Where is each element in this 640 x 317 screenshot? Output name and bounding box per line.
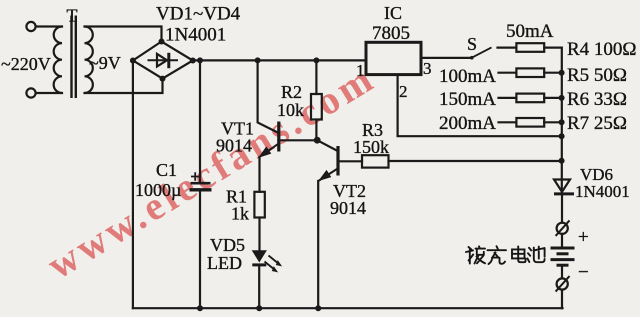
resistor R4 [516,43,544,52]
svg-text:10k: 10k [277,100,304,120]
wire: primary bottom lead [36,92,62,94]
svg-text:200mA: 200mA [439,113,496,134]
svg-text:1N4001: 1N4001 [165,25,226,46]
wire: R3 right to battery bus [389,160,562,162]
wire: R2 top branch [315,60,317,94]
switch S [470,47,492,59]
svg-text:50mA: 50mA [506,21,554,42]
node: C1 tap on +V rail [197,57,203,63]
node: bus row4 [559,119,565,125]
node A: R2 / VT1 base / VT2 collector [314,137,321,144]
svg-text:9014: 9014 [330,198,366,218]
wire: R5 to bus [544,72,561,74]
svg-text:150k: 150k [353,137,389,157]
transformer T [26,16,92,99]
core [72,16,76,99]
svg-text:1k: 1k [231,204,249,224]
wire: VT1 collector branch [258,60,279,132]
wire: IC pin3 to switch [421,57,471,59]
bridge inner diode [148,59,179,61]
wire: VT1 emitter to R1 [258,158,260,192]
wire: row2 lead to R5 [499,72,517,74]
svg-text:100mA: 100mA [439,66,496,87]
node: bus row3 [559,95,565,101]
node: bus row2 [559,70,565,76]
svg-text:T: T [67,6,78,26]
svg-text:R5 50Ω: R5 50Ω [567,65,627,86]
resistor R7 [516,118,544,127]
wire: switch to R4 [498,46,517,48]
input terminal top [26,22,35,31]
svg-text:R4 100Ω: R4 100Ω [567,39,637,60]
IC 7805 box [366,42,421,74]
wire: VT2 emitter down to ground rail [317,181,319,308]
svg-text:LED: LED [207,253,242,273]
wire: row4 lead to R7 [499,121,517,123]
svg-text:R7 25Ω: R7 25Ω [567,113,627,134]
wire: LED to ground rail [258,266,260,309]
input terminal bottom [26,88,35,97]
svg-text:1000µ: 1000µ [135,180,181,200]
wire: C1 bottom to ground rail [199,190,201,308]
svg-text:1N4001: 1N4001 [575,182,630,201]
svg-text:R6 33Ω: R6 33Ω [567,89,627,110]
battery plus terminal [556,220,570,236]
char bei [466,247,473,264]
node: VT1 collector tap on +V rail [255,57,261,63]
char chi [528,248,532,262]
wire: terminal to battery plates [561,234,563,248]
wire: primary top lead [36,25,62,27]
capacitor C1 [190,172,212,190]
wire: R4 to bus [544,46,561,48]
svg-text:VD5: VD5 [210,235,245,255]
LED VD5 [252,251,281,272]
wire: IC pin2 down and right to bus [398,75,562,137]
svg-text:150mA: 150mA [439,89,496,110]
wire: row3 lead to R6 [499,97,517,99]
wire: node A to VT2 collector [317,140,338,151]
char chong [488,246,507,264]
resistor R5 [516,68,544,77]
node: bus R3 join [559,158,565,164]
wires and rails [36,27,563,309]
transistor VT1 [259,122,279,158]
svg-text:+: + [578,227,589,248]
wire: R1 to LED [258,218,260,251]
svg-text:9014: 9014 [216,136,252,156]
svg-text:2: 2 [399,82,408,101]
label 被充电池 (hand-drawn strokes) [466,246,545,264]
secondary winding [85,27,93,94]
resistor R6 [516,94,544,103]
LED arrows [269,256,280,265]
svg-text:−: − [578,262,589,283]
node dots on bridge [130,58,136,64]
node: LED on ground rail [256,305,262,311]
battery plates [551,248,575,265]
svg-text:~220V: ~220V [1,54,51,74]
node: C1 on ground rail [197,305,203,311]
svg-text:C1: C1 [156,160,177,180]
resistor R2 [311,94,322,120]
wire: secondary top to bridge top node [85,27,162,42]
wire: ground bottom rail [133,307,563,309]
diode VD6 [554,180,574,194]
node: VT2 emitter on ground rail [315,305,321,311]
wire: minus terminal down to ground rail [561,290,563,308]
watermark www.elecfans.com [39,54,383,287]
resistor R3 [362,155,389,167]
node: bus pin2 join [559,133,565,139]
svg-text:~9V: ~9V [89,53,121,73]
transistor VT2 [318,146,338,181]
svg-text:7805: 7805 [372,23,410,44]
wire: secondary bottom to bridge bottom node [85,79,163,93]
svg-text:1: 1 [356,61,365,80]
wire: C1 branch vertical [199,60,201,183]
char dian [512,246,526,262]
wire: bridge left node down to ground rail [132,61,134,309]
svg-text:R2: R2 [281,82,302,102]
battery minus terminal [556,276,570,292]
svg-text:3: 3 [423,59,432,78]
svg-text:VD1~VD4: VD1~VD4 [156,4,241,25]
primary winding [54,27,62,94]
wire: R6 to bus [544,97,561,99]
resistor R1 [254,192,264,218]
C1 plus sign [191,172,200,181]
wire: VD6 to battery plus terminal [561,196,563,223]
wire: R7 to bus [544,121,561,123]
wire: top +V rail from bridge right node to IC pin1 [193,59,366,61]
svg-text:IC: IC [384,3,402,23]
wire: battery to minus terminal [561,266,563,279]
wire: VT2 base to R3 [338,160,362,162]
node: R2 tap on +V rail [313,57,319,63]
bridge rectifier VD1~VD4 [130,39,196,82]
wire: bus vertical from R4 down to VD6 [561,48,563,194]
wire: VT1 base to node A [279,139,317,141]
svg-text:S: S [467,34,477,54]
wire: R2 bottom to node A [315,120,317,141]
